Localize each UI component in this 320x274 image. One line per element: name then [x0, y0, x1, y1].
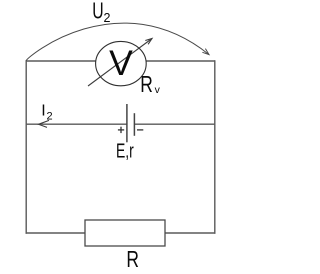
- resistor R: [85, 220, 165, 272]
- battery short plate (-): [133, 113, 135, 136]
- svg-text:V: V: [109, 43, 133, 83]
- battery E,r: [116, 104, 143, 163]
- svg-text:U: U: [92, 0, 103, 24]
- svg-text:R: R: [126, 246, 139, 272]
- svg-text:v: v: [155, 84, 161, 96]
- wire top-right segment: [146, 60, 215, 62]
- wire middle-left segment: [26, 123, 128, 125]
- plus sign: [118, 129, 124, 131]
- voltmeter circle: [96, 41, 147, 85]
- svg-text:E,r: E,r: [116, 141, 134, 163]
- wire bottom-left segment: [26, 232, 86, 234]
- wire middle-right segment: [134, 123, 215, 125]
- needle arrow: [88, 39, 152, 87]
- battery long plate (+): [126, 104, 128, 142]
- svg-text:I: I: [41, 103, 45, 120]
- svg-text:2: 2: [104, 11, 111, 25]
- svg-text:2: 2: [47, 111, 53, 123]
- minus sign: [137, 129, 143, 131]
- wire left vertical: [25, 60, 27, 233]
- wire bottom-right segment: [165, 232, 216, 234]
- svg-text:R: R: [140, 71, 153, 97]
- wire right vertical: [214, 60, 216, 233]
- U2 arc arrow: [26, 0, 209, 61]
- I2 current arrow: [39, 103, 53, 128]
- voltmeter V (internal resistance Rv): [88, 39, 161, 98]
- wire top-left segment: [26, 60, 96, 62]
